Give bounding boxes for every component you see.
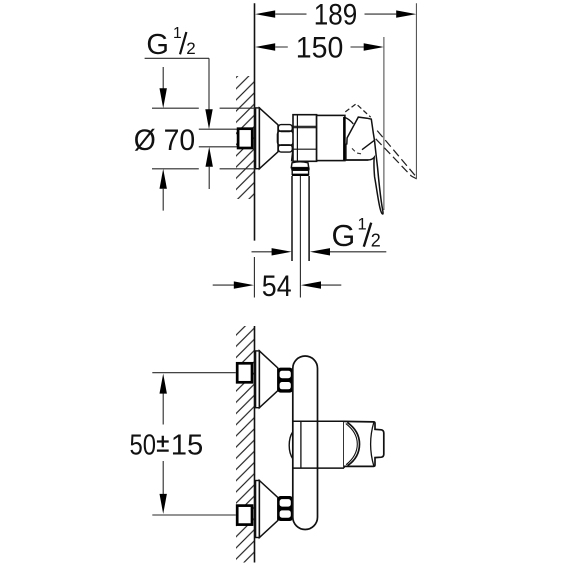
- svg-text:54: 54: [262, 270, 292, 303]
- svg-text:15: 15: [171, 430, 204, 462]
- svg-text:50: 50: [130, 430, 157, 462]
- svg-text:1: 1: [173, 25, 182, 42]
- svg-text:1: 1: [358, 215, 367, 233]
- svg-text:Ø 70: Ø 70: [134, 124, 196, 157]
- svg-text:2: 2: [186, 39, 195, 58]
- svg-text:150: 150: [296, 32, 344, 65]
- svg-text:2: 2: [371, 230, 381, 250]
- svg-text:G: G: [332, 219, 356, 253]
- svg-text:189: 189: [314, 0, 358, 32]
- svg-text:G: G: [146, 29, 169, 61]
